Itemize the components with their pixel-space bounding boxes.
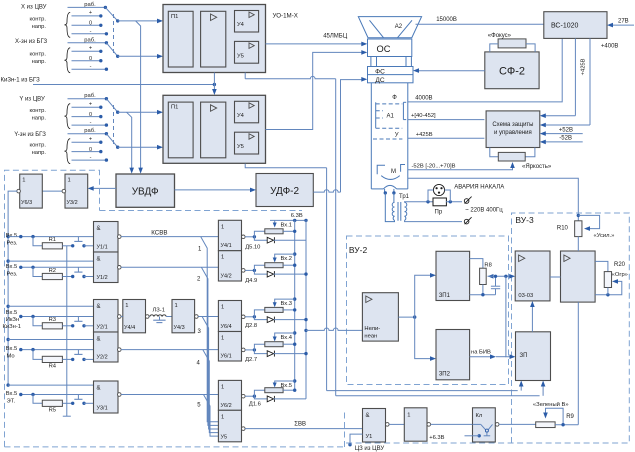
svg-text:R3: R3 [49,317,56,323]
svg-text:&: & [366,413,370,419]
svg-text:У6/2: У6/2 [221,403,232,409]
terminal 220В bottom [464,219,469,224]
wire +[40-452] to Схема защиты [408,119,485,121]
svg-text:+425В: +425В [581,58,587,75]
potentiometer «Яркость» [490,148,499,157]
svg-text:контр.: контр. [29,108,46,114]
wire feedback to У2/2 [8,339,93,341]
svg-text:М: М [391,169,396,175]
wire arrow into Схема right 1 [543,115,575,117]
wire У5 output ΣВВ [245,428,362,430]
svg-text:«Огр»: «Огр» [612,272,628,278]
dashed border КСВВ section [5,170,100,447]
wire to ЗП2 [415,317,433,359]
svg-text:-: - [90,28,92,34]
node output junction Вх.3 [245,316,254,318]
wire Y-зн to УО-2 input 2 [118,146,160,148]
wire transformer secondary top [405,201,434,204]
svg-text:Ф: Ф [392,95,397,101]
svg-text:Д5.10: Д5.10 [245,244,260,250]
block УО-1М amplifier 2 [163,95,266,163]
wire контр + [72,141,101,143]
svg-text:напр.: напр. [32,150,47,156]
wire 27В input [611,24,635,26]
AND gate У2/1 [94,300,119,333]
svg-text:1: 1 [22,178,25,184]
svg-text:ЦЗ из ЦВУ: ЦЗ из ЦВУ [355,446,385,452]
wire контр - [72,124,107,126]
svg-text:КиЗн-1 из БГЗ: КиЗн-1 из БГЗ [1,78,41,84]
cathode arc [381,176,400,180]
svg-text:ДС: ДС [375,77,384,84]
resistor input Вх.3 [254,310,264,317]
block УДФ-2 [256,174,313,207]
switch arm [106,99,117,113]
wire УО-1 bottom output [244,73,246,79]
wire раб. [68,6,106,8]
svg-text:R2: R2 [49,268,56,274]
svg-text:Кл: Кл [476,413,483,419]
wire diode bus to Нелинеан [304,329,307,332]
wire У2/1 to У4/4 [121,316,123,318]
wire контр + [72,15,101,17]
block П1 of УО 1 [168,11,193,67]
wire output 4 drop to У5 [203,350,219,433]
resistor R2 [33,267,42,276]
wire 15000В anode [416,23,544,25]
svg-text:0: 0 [89,56,92,62]
CRT funnel А2 [358,17,421,38]
wire X-зн to УО-1 input 2 [118,55,160,57]
svg-text:раб.: раб. [84,128,96,134]
svg-text:R5: R5 [49,408,56,414]
inverter У6/3 [20,174,43,208]
svg-text:П1: П1 [171,105,178,111]
svg-text:Вх.2: Вх.2 [281,256,293,262]
wire Y branch down to УВДФ [127,112,132,168]
wire ЗП1 bottom [470,294,496,296]
wire row 5 upper [21,394,94,396]
svg-text:раб.: раб. [84,93,96,99]
svg-text:+: + [89,46,92,52]
block СФ-2 [485,52,539,89]
block ВС-1020 [544,12,607,39]
svg-text:15000В: 15000В [436,17,457,23]
wire контр + [72,50,101,52]
buffer 1 +6.3В [404,408,427,441]
amplifier У5 of УО 1 [235,41,259,63]
svg-text:Вх.3: Вх.3 [281,301,293,307]
wire 4000В [408,38,562,102]
buffer У6/2 [218,380,241,410]
svg-text:раб.: раб. [84,2,96,8]
wire output stage down to R9 line [577,302,579,425]
svg-text:Х-зн из БГЗ: Х-зн из БГЗ [15,39,48,45]
contact row 3 [77,317,79,322]
svg-text:-: - [90,120,92,126]
wire arrow into Схема right 2 [543,124,590,126]
wire контр - [72,159,107,161]
block П1 of УО 2 [168,102,193,158]
arrow input Вх.2 [293,252,296,255]
inverter У3/2 [65,174,88,208]
wire контр - [72,68,107,70]
buffer У6/1 [218,332,241,362]
svg-text:У: У [395,133,399,139]
svg-text:Нели-: Нели- [364,326,380,332]
switch arm [106,43,117,57]
svg-text:0: 0 [89,21,92,27]
svg-text:ЭТ.: ЭТ. [7,399,16,405]
svg-text:R20: R20 [614,262,626,268]
wire контр 0 [72,151,101,153]
svg-text:&: & [97,226,101,232]
svg-text:У4/3: У4/3 [174,325,185,331]
wire output 1 drop to У5 [201,237,219,422]
svg-text:Х из ЦВУ: Х из ЦВУ [21,5,47,11]
svg-text:ВУ-3: ВУ-3 [515,215,534,225]
svg-text:напр.: напр. [32,59,47,65]
wire buffer to Кл [431,423,473,425]
svg-text:+: + [89,136,92,142]
wire УВДФ to УДФ-2 [175,189,253,191]
wire ЗП1 output down to ЗП [506,276,512,356]
block ЗП2 [436,330,470,380]
svg-text:Вх.4: Вх.4 [281,335,293,341]
wire Y to УО-2 input 1 [118,111,160,113]
svg-text:Рез.: Рез. [7,241,18,247]
wire УДФ-2 output to ДС [313,190,340,192]
svg-text:~ 220В 400Гц: ~ 220В 400Гц [465,208,503,214]
buffer У5 [218,410,241,442]
svg-text:ФС: ФС [375,69,385,76]
wire row 1 lower left [62,245,72,247]
svg-text:&: & [97,386,101,392]
svg-text:КиЗн-1: КиЗн-1 [3,324,21,330]
resistor R4 [33,350,42,360]
svg-text:У6/1: У6/1 [221,354,232,360]
wire blanking 2 into ЗП [336,395,540,397]
wire УВДФ to У3/2 [91,187,116,189]
wire раб. [68,42,107,44]
node switch common [116,55,119,58]
wire У1 to buffer [389,423,404,425]
node switch common [116,146,119,149]
wire feedback to У3/1 [8,384,93,386]
block ЗП [516,332,551,381]
wire transformer primary [385,193,394,222]
wire cathode to R10 [408,178,579,221]
heater bump [384,185,397,189]
svg-text:R9: R9 [566,414,574,420]
resistor R3 [33,317,42,326]
svg-text:ЛЗ-1: ЛЗ-1 [153,307,165,313]
svg-text:ИкЗн: ИкЗн [6,317,19,323]
svg-text:Вх.5: Вх.5 [6,346,18,352]
junction row 3 [31,315,34,318]
wire feedback to У2/1 [8,305,93,307]
svg-text:и управления: и управления [494,130,532,136]
node output junction Вх.2 [245,269,254,271]
svg-text:R1: R1 [49,237,56,243]
svg-text:У4/1: У4/1 [221,243,232,249]
svg-text:А1: А1 [387,114,395,120]
svg-text:АВАРИЯ НАКАЛА: АВАРИЯ НАКАЛА [454,185,504,191]
buffer У4/3 [172,300,195,333]
wire output 3 drop to У5 [202,317,218,430]
junction row 1 [31,235,34,238]
wire У4/3 output to У6/4 [198,316,218,318]
arrow input Вх.3 [293,297,296,300]
wire output 5 drop to У5 [204,395,219,437]
indicator lamp АВАРИЯ НАКАЛА [433,184,444,195]
svg-text:1: 1 [407,413,410,419]
dashed border ВУ-2 [347,236,509,385]
block Схема защиты и управления [486,111,540,148]
svg-text:+[40-452]: +[40-452] [411,113,436,119]
svg-text:-52В [-20...+70]В: -52В [-20...+70]В [412,163,456,169]
wire У3/2 to У6/3 [42,190,63,192]
buffer У4/2 [218,251,241,281]
svg-text:УО-1М-Х: УО-1М-Х [273,13,298,20]
amplifier 03-03 [515,251,550,301]
wire row 4 lower right [84,358,94,360]
node switch common [116,111,119,114]
wire СФ-2 to ФС [417,70,485,72]
wire 03-03 to output stage [550,276,561,278]
amplifier У5 of УО 2 [235,132,259,154]
switch Кл [473,408,496,442]
wire раб. [68,133,107,135]
wire Нелинеан output [398,316,414,318]
svg-text:Рез.: Рез. [7,271,18,277]
svg-text:У4: У4 [237,22,245,28]
svg-text:1: 1 [68,178,71,184]
node switch common [116,19,119,22]
svg-text:+425В: +425В [416,132,433,138]
resistor R1 [33,237,42,246]
wire R20 bottom loop [595,281,622,294]
deflection yoke ОС [368,39,412,57]
wire row 2 lower right [84,276,94,278]
dashed border ВУ-3 [345,213,630,443]
svg-text:&: & [97,304,101,310]
diode Д4.9 [254,270,267,274]
potentiometer R10 [575,221,582,237]
dashed switch coupling X [113,14,115,54]
potentiometer R9 [536,422,555,428]
svg-text:1: 1 [125,303,128,309]
wire row 5 lower left [62,402,72,404]
wire row 3 lower left [62,325,72,327]
svg-text:А2: А2 [395,24,403,30]
svg-text:-52В: -52В [559,136,572,142]
wire УО-2 bottom output [245,164,326,168]
wire ВС-1020 down 2 +425В [589,38,591,125]
svg-text:0: 0 [89,112,92,118]
svg-text:ЗП1: ЗП1 [439,293,451,299]
dashed switch coupling Y [113,105,115,145]
AND gate У1/2 [94,252,119,283]
wire У3/1 output to У6/2 [121,394,218,396]
resistor input Вх.4 [254,344,264,350]
svg-text:У6/3: У6/3 [21,200,32,206]
svg-text:«Усил.»: «Усил.» [594,233,615,239]
buffer У4/1 [218,220,241,250]
wire R9 wiper «Зеленый В» [546,408,564,425]
dashed border bottom box left [344,410,346,447]
AND gate У1/1 [94,222,119,253]
wire УО-1 output to ОС [266,43,365,45]
wire ЦЗ из ЦВУ [348,443,351,446]
arrow input Вх.1 [274,220,276,224]
terminal 220В top [464,199,469,204]
block УВДФ [116,174,175,207]
diode Д2.7 [254,350,267,354]
svg-text:Вх.1: Вх.1 [281,222,293,228]
svg-text:УВДФ: УВДФ [132,187,159,198]
wire контр - [72,33,107,35]
fuse Пр [433,198,446,206]
wire to ЗП1 [415,275,433,317]
svg-text:УДФ-2: УДФ-2 [270,186,299,197]
node output junction Вх.1 [245,236,254,238]
resistor R5 [33,395,42,404]
wire ВС-1020 down 1 [574,38,576,115]
svg-text:У4: У4 [237,113,245,119]
svg-text:Д2.8: Д2.8 [245,323,257,329]
node output junction Вх.4 [245,349,254,351]
wire R9 output [555,424,578,426]
svg-text:Схема защиты: Схема защиты [492,122,533,128]
svg-text:4000В: 4000В [415,96,432,102]
wire раб. [68,98,107,100]
wire контр 0 [72,116,101,118]
amplifier У4 of УО 2 [235,101,259,123]
svg-text:Д1.6: Д1.6 [249,402,261,408]
wire feedback to У1/2 [8,260,93,262]
svg-text:на БИВ: на БИВ [471,349,491,355]
node output junction Вх.5 [245,395,254,397]
resistor input Вх.2 [254,265,264,270]
CRT neck [370,83,372,189]
AND gate У2/2 [94,332,119,362]
buffer У6/4 [218,301,241,332]
svg-text:Вх.5: Вх.5 [6,264,18,270]
svg-text:Пр: Пр [435,210,443,216]
bus 6.3В vertical [294,220,296,390]
wire R10 into amplifier [577,237,579,251]
svg-text:ВУ-2: ВУ-2 [349,245,368,255]
svg-text:раб.: раб. [84,37,96,43]
wire R10 wiper «Усил.» [578,215,599,228]
svg-text:&: & [97,337,101,343]
svg-text:У1/1: У1/1 [97,245,108,251]
block ЗП1 [436,251,470,300]
wire X to УО-1 input 1 [118,20,160,22]
contact row 5 [77,395,79,400]
wire row 4 lower left [62,358,72,360]
svg-text:У2/1: У2/1 [97,325,108,331]
wire row 1 upper [8,236,93,238]
wire 6.3В rail [270,219,306,221]
svg-text:«Яркость»: «Яркость» [522,164,552,170]
block УО-1М amplifier 1 [163,5,266,73]
svg-text:«Фокус»: «Фокус» [488,33,512,39]
switch arm [106,134,117,148]
svg-text:6.3В: 6.3В [291,213,303,219]
wire row 2 lower left [62,276,72,278]
junction row 2 [31,266,34,269]
amplifier stage of УО 2 [201,102,226,158]
svg-text:Y из ЦВУ: Y из ЦВУ [19,97,45,103]
svg-text:+: + [89,10,92,16]
wire ОС-ФС connectors [370,57,372,67]
wire row 2 upper [21,266,94,268]
wire ЗП2 output на БИВ [470,356,493,358]
svg-text:У5: У5 [237,53,244,59]
transformer Тр1 [384,191,387,194]
bus diode outputs vertical [305,220,307,399]
junction row 5 [31,393,34,396]
electrode Ф [376,103,403,105]
svg-text:R10: R10 [557,225,569,231]
resistor input Вх.5 [254,390,264,396]
svg-text:У1: У1 [366,434,373,440]
svg-text:У2/2: У2/2 [97,355,108,361]
buffer У4/4 [123,300,146,333]
electrode А1 [375,102,377,128]
svg-text:1: 1 [221,414,224,420]
svg-text:контр.: контр. [29,17,46,23]
potentiometer «Фокус» [498,39,526,48]
svg-text:ЗП: ЗП [520,353,528,359]
AND gate У1 [363,409,386,443]
svg-text:У6/4: У6/4 [221,324,232,330]
svg-text:03-03: 03-03 [518,293,533,299]
diode Д2.8 [254,317,267,320]
amplifier output stage [561,251,596,302]
wire У1/1 output to У4/1 [121,236,218,238]
svg-text:ОС: ОС [377,44,391,54]
svg-text:Вх.5: Вх.5 [281,383,293,389]
svg-text:1: 1 [221,255,224,261]
svg-text:+52В: +52В [559,127,573,133]
svg-text:контр.: контр. [29,52,46,58]
svg-text:напр.: напр. [32,24,47,30]
svg-text:П1: П1 [171,14,178,20]
svg-text:45ЛМБЦ: 45ЛМБЦ [323,34,348,40]
svg-text:+: + [89,101,92,107]
arrow input Вх.4 [293,331,296,334]
svg-text:1: 1 [221,305,224,311]
svg-text:27В: 27В [618,19,629,25]
wire contact bus vertical [66,246,68,416]
wire Кл to R9 [499,423,536,425]
svg-text:0: 0 [89,147,92,153]
wire row 5 lower right [84,402,94,404]
wire row 4 upper [21,349,94,351]
wire +425В to Схема защиты [408,137,485,139]
focus coil ФС and ДС [368,67,414,83]
svg-text:R4: R4 [49,364,57,370]
wire transformer secondary bottom [405,220,463,221]
svg-text:напр.: напр. [32,116,47,122]
svg-text:-: - [90,155,92,161]
svg-text:Y-зн из БГЗ: Y-зн из БГЗ [14,132,46,138]
diode Д5.10 [254,237,267,240]
svg-text:1: 1 [221,224,224,230]
